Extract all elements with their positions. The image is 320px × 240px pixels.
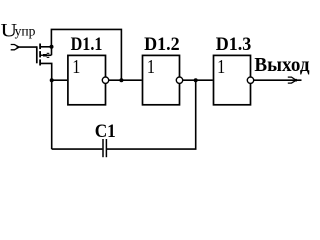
inversion bubble D1.3 — [247, 77, 253, 83]
wire D1.1 out to D1.2 in — [109, 79, 142, 81]
junction D1.2 output node — [194, 78, 198, 82]
wire bottom rail right up to D1.2 output node — [107, 80, 196, 149]
svg-text:D1.1: D1.1 — [71, 34, 103, 54]
svg-text:1: 1 — [147, 55, 155, 77]
wire D1.2 out to D1.3 in — [183, 79, 213, 81]
gate D1.1 box — [68, 55, 106, 104]
inversion bubble D1.2 — [176, 77, 182, 83]
svg-text:D1.2: D1.2 — [144, 34, 180, 54]
wire gate lead — [17, 46, 37, 48]
capacitor C1 plates — [103, 139, 106, 157]
gate D1.2 box — [143, 55, 180, 104]
output arrow tip — [294, 79, 297, 82]
inversion bubble D1.1 — [102, 77, 108, 83]
svg-text:C1: C1 — [95, 120, 116, 141]
output arrow — [288, 77, 296, 83]
svg-text:D1.3: D1.3 — [216, 34, 252, 54]
transistor VT1 channel segments — [39, 44, 41, 66]
wire input node to D1.1 — [52, 79, 67, 81]
wire top feedback rail — [51, 29, 121, 80]
junction D1.1 output node — [119, 78, 123, 82]
svg-text:упр: упр — [15, 23, 36, 38]
gate D1.3 box — [214, 55, 251, 104]
input arrow (Uупр terminal) — [11, 45, 19, 50]
svg-text:1: 1 — [72, 55, 80, 77]
label Uупр — [0, 19, 35, 41]
transistor VT1 substrate arrow — [40, 53, 51, 57]
wire source stub down to bottom rail — [40, 63, 52, 149]
wire bottom rail left (to C1) — [52, 148, 103, 150]
wire output — [254, 79, 302, 81]
junction input node — [50, 78, 54, 82]
junction drain node — [50, 45, 54, 49]
svg-text:1: 1 — [217, 55, 225, 77]
wire drain stub — [40, 46, 51, 48]
transistor VT1 gate bar — [36, 46, 38, 63]
wire substrate to drain node — [51, 47, 53, 55]
svg-text:Выход: Выход — [254, 55, 309, 76]
